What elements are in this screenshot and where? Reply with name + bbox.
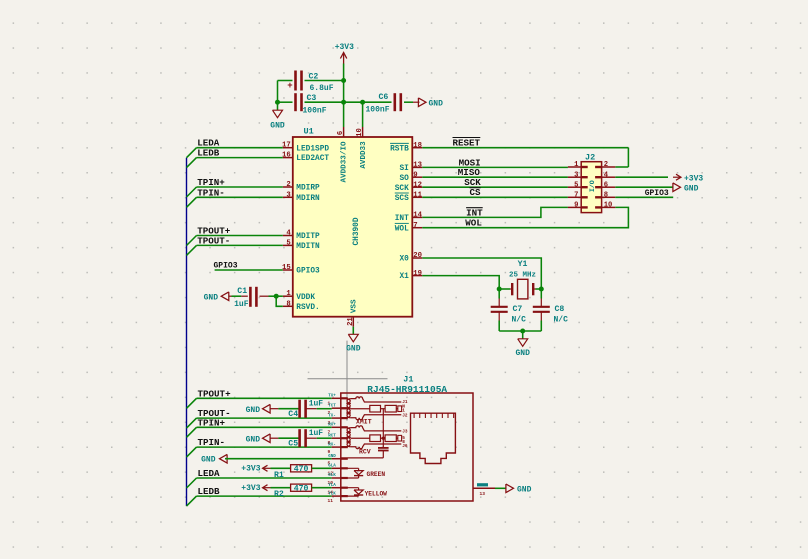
- label TPOUT+ bottom: [198, 388, 232, 399]
- wire TPIN-: [197, 196, 283, 198]
- svg-text:11: 11: [413, 192, 422, 200]
- svg-text:C4: C4: [288, 410, 298, 419]
- U1 pin 11 SCS: [395, 192, 423, 203]
- capacitor C5 1uF: [270, 429, 323, 449]
- capacitor C1 1uF: [229, 287, 269, 309]
- svg-text:YLA: YLA: [328, 484, 336, 488]
- wire MOSI net: [422, 166, 568, 168]
- J1 pin 13 shield GND: [473, 483, 495, 497]
- label TPIN-: [197, 187, 225, 198]
- svg-text:MDITN: MDITN: [296, 243, 320, 251]
- capacitor C7 N/C: [491, 289, 526, 331]
- svg-text:WOL: WOL: [465, 218, 482, 229]
- capacitor in J1 to shield: [378, 448, 389, 458]
- connector J2 body: [581, 153, 601, 213]
- junction: [274, 294, 279, 299]
- label TPOUT+: [197, 226, 231, 237]
- svg-text:10: 10: [356, 128, 364, 137]
- svg-text:GND: GND: [429, 99, 444, 108]
- svg-text:RX+: RX+: [328, 424, 336, 428]
- wire WOL net: [422, 207, 628, 227]
- svg-text:21: 21: [347, 317, 355, 326]
- wire to U1 pin 10: [362, 102, 364, 127]
- wire C2 row: [278, 81, 344, 103]
- svg-text:RJ45-HR911105A: RJ45-HR911105A: [367, 384, 447, 395]
- svg-text:15: 15: [282, 264, 291, 272]
- U1 pin 19 X1: [399, 270, 422, 281]
- wire GND to J1: [225, 458, 332, 460]
- svg-text:GND: GND: [515, 349, 530, 358]
- ground below crystal caps: [515, 331, 530, 358]
- ground left of C1: [204, 292, 229, 303]
- svg-text:5: 5: [574, 181, 578, 189]
- ground right of C6: [404, 98, 443, 108]
- capacitor C8 N/C: [533, 289, 568, 331]
- svg-text:CS: CS: [470, 187, 482, 198]
- U1 pin 7 WOL: [395, 222, 423, 233]
- wire LEDB bottom: [197, 495, 332, 497]
- svg-text:R2: R2: [274, 490, 284, 499]
- label TPIN+: [197, 177, 225, 188]
- wire RESET net: [422, 148, 628, 167]
- wire center tap vertical in J1: [382, 409, 384, 448]
- svg-text:SI: SI: [399, 165, 409, 173]
- U1 pin 12 SCK: [395, 181, 423, 192]
- ground label bottom: [201, 454, 227, 464]
- label LEDB: [197, 148, 220, 159]
- RJ45 jack icon: [411, 413, 456, 463]
- svg-text:LEDB: LEDB: [198, 486, 221, 497]
- LED YELLOW in J1: [341, 488, 387, 498]
- svg-text:1uF: 1uF: [309, 399, 324, 408]
- J2 pin 1: [568, 161, 588, 169]
- wire J1 shield rail: [341, 457, 384, 459]
- svg-text:9: 9: [574, 202, 578, 210]
- svg-text:C5: C5: [288, 440, 298, 449]
- svg-text:+3V3: +3V3: [684, 174, 703, 183]
- resistor R2 470: [271, 484, 312, 499]
- junction: [341, 100, 346, 105]
- U1 pin 1 VDDK: [283, 290, 316, 302]
- svg-text:J2: J2: [585, 153, 595, 163]
- capacitor C4 1uF: [270, 399, 323, 419]
- power +3V3 right: [673, 174, 703, 183]
- ground right of J1: [506, 484, 532, 495]
- wire INT net: [422, 207, 568, 217]
- svg-text:470: 470: [294, 465, 309, 474]
- junction: [497, 287, 502, 292]
- bus entry LEDB bottom: [187, 496, 197, 506]
- label SCK: [464, 177, 481, 188]
- svg-text:9: 9: [413, 171, 417, 179]
- U1 pin 2 MDIRP: [283, 181, 320, 193]
- ground below U1 VSS: [346, 327, 361, 354]
- svg-text:AVDD33: AVDD33: [360, 141, 368, 169]
- svg-text:8: 8: [286, 300, 290, 308]
- svg-text:18: 18: [413, 142, 422, 150]
- power +3V3 for R1: [241, 465, 270, 474]
- J1 pin 1 TX+: [328, 395, 348, 407]
- svg-text:SO: SO: [399, 175, 409, 183]
- svg-text:GND: GND: [684, 184, 699, 193]
- wire TPIN+ bottom: [197, 426, 332, 428]
- svg-text:100nF: 100nF: [303, 106, 327, 115]
- bus entry TPOUT+ bottom: [187, 398, 197, 408]
- svg-text:C6: C6: [379, 93, 389, 102]
- svg-text:C7: C7: [513, 305, 523, 314]
- svg-text:RESET: RESET: [453, 137, 481, 148]
- transformer XMIT in J1: [341, 397, 408, 426]
- label LEDA bottom: [198, 468, 221, 479]
- svg-text:1uF: 1uF: [309, 429, 324, 438]
- wire J1 to GND: [495, 487, 507, 489]
- wire TPIN+: [197, 186, 283, 188]
- U1 pin 4 MDITP: [283, 230, 320, 242]
- LED GREEN in J1: [341, 468, 386, 478]
- bus entry TPIN+: [187, 187, 197, 197]
- svg-text:+: +: [287, 81, 292, 91]
- junction in J1: [382, 437, 385, 440]
- svg-text:3: 3: [574, 171, 578, 179]
- label TPOUT-: [197, 235, 230, 246]
- U1 pin 16 LED2ACT: [282, 152, 329, 164]
- capacitor C3 100nF: [296, 93, 327, 115]
- U1 pin 9 SO: [399, 171, 422, 182]
- svg-text:I/O: I/O: [589, 180, 596, 192]
- wire SCK net: [422, 186, 568, 188]
- svg-text:3: 3: [286, 191, 291, 199]
- label LEDB bottom: [198, 486, 221, 497]
- svg-text:LEDB: LEDB: [197, 148, 220, 159]
- wire J2 pin4 to +3V3: [615, 176, 668, 178]
- svg-text:MDIRP: MDIRP: [296, 185, 320, 193]
- svg-text:GPIO3: GPIO3: [645, 189, 669, 198]
- label TPOUT- bottom: [198, 408, 231, 419]
- svg-text:SCK: SCK: [395, 185, 409, 193]
- svg-text:11: 11: [328, 498, 334, 504]
- J1 pin 11 YLK: [328, 492, 348, 504]
- svg-text:C3: C3: [307, 94, 317, 103]
- bus entry TPIN-: [187, 197, 197, 207]
- svg-text:RCT: RCT: [328, 434, 336, 438]
- svg-text:7: 7: [413, 222, 417, 230]
- junction: [539, 287, 544, 292]
- svg-text:GPIO3: GPIO3: [296, 268, 320, 276]
- svg-text:Y1: Y1: [518, 260, 528, 269]
- svg-text:RSTB: RSTB: [390, 145, 409, 153]
- U1 pin 13 SI: [399, 162, 422, 173]
- J2 pin 5: [568, 181, 588, 189]
- wire TPIN- bottom: [197, 446, 332, 448]
- svg-text:N/C: N/C: [512, 315, 527, 324]
- U1 pin 14 INT: [395, 212, 423, 223]
- svg-text:GND: GND: [270, 122, 285, 131]
- svg-text:1: 1: [286, 290, 291, 298]
- J1 pin 8 RCT: [328, 434, 348, 446]
- bus entry TPOUT- bottom: [187, 418, 197, 428]
- wire X0 net: [422, 258, 541, 289]
- J2 pin 7: [568, 191, 588, 199]
- svg-text:GREEN: GREEN: [367, 471, 386, 478]
- U1 pin 15 GPIO3: [282, 264, 320, 276]
- bus entry LEDA bottom: [187, 478, 197, 488]
- svg-text:R1: R1: [274, 471, 284, 480]
- svg-text:1: 1: [574, 161, 579, 169]
- svg-text:470: 470: [294, 484, 309, 493]
- svg-text:2: 2: [604, 161, 608, 169]
- U1 pin 18 RSTB: [390, 142, 422, 153]
- svg-text:TPIN-: TPIN-: [197, 187, 225, 198]
- svg-text:4: 4: [604, 171, 609, 179]
- wire C4 to J1: [317, 408, 332, 410]
- wire R1 to J1: [312, 467, 332, 469]
- svg-text:VSS: VSS: [351, 299, 359, 313]
- J1 pin 14 YLA: [328, 484, 348, 496]
- junction: [275, 100, 280, 105]
- U1 pin 17 LED1SPD: [282, 142, 329, 154]
- transformer RCV in J1: [341, 426, 408, 456]
- label RESET: [453, 137, 481, 148]
- ground right of J2: [673, 183, 699, 193]
- svg-text:INT: INT: [395, 215, 409, 223]
- svg-text:LEDA: LEDA: [198, 468, 221, 479]
- wire crystal caps bottom: [499, 330, 541, 332]
- svg-text:RSVD.: RSVD.: [296, 304, 319, 312]
- bus entry TPIN+ bottom: [187, 427, 197, 437]
- svg-text:GLK: GLK: [328, 474, 336, 478]
- svg-text:8: 8: [604, 191, 608, 199]
- capacitor C6 100nF: [363, 93, 401, 115]
- J2 pin 6: [595, 181, 615, 189]
- svg-text:16: 16: [282, 152, 291, 160]
- label WOL: [465, 218, 482, 229]
- label CS: [470, 187, 482, 198]
- svg-text:6: 6: [604, 181, 608, 189]
- junction: [360, 100, 365, 105]
- svg-text:LED2ACT: LED2ACT: [296, 155, 329, 163]
- svg-text:YELLOW: YELLOW: [365, 490, 388, 497]
- svg-text:U1: U1: [304, 127, 314, 137]
- svg-text:GND: GND: [204, 293, 219, 302]
- wire +3V3 vertical to U1 pin 6: [343, 64, 345, 128]
- svg-text:GND: GND: [246, 435, 261, 444]
- svg-text:2: 2: [286, 181, 290, 189]
- IC U1 CH390D body: [293, 127, 413, 317]
- wire R2 to J1: [312, 487, 332, 489]
- ground left of C5: [246, 434, 271, 445]
- svg-text:+3V3: +3V3: [241, 484, 260, 493]
- svg-text:C8: C8: [555, 305, 565, 314]
- svg-text:GPIO3: GPIO3: [214, 262, 238, 271]
- wire MISO net: [422, 176, 568, 178]
- svg-text:19: 19: [413, 270, 422, 278]
- svg-text:RCV: RCV: [359, 448, 371, 455]
- svg-text:12: 12: [413, 181, 422, 189]
- J1 pin 12 GLA: [328, 465, 348, 477]
- svg-text:GND: GND: [246, 406, 261, 415]
- svg-text:4: 4: [286, 230, 291, 238]
- label MISO: [458, 167, 481, 178]
- J2 pin 2: [595, 161, 615, 169]
- wire TPOUT+: [197, 235, 283, 237]
- svg-text:13: 13: [413, 162, 422, 170]
- J2 pin 9: [568, 202, 588, 210]
- J1 pin 3 TX-: [328, 414, 348, 426]
- svg-text:20: 20: [413, 252, 422, 260]
- wire TPOUT+ bottom: [197, 397, 332, 399]
- bus entry TPOUT+: [187, 236, 197, 246]
- cursor crosshair: [308, 341, 388, 421]
- connector J1 RJ45-HR911105A body: [341, 375, 473, 501]
- svg-text:TPOUT+: TPOUT+: [198, 388, 232, 399]
- svg-text:GLA: GLA: [328, 465, 336, 469]
- svg-text:LED1SPD: LED1SPD: [296, 145, 329, 153]
- bus entry LEDA: [187, 148, 197, 158]
- label MOSI: [459, 157, 481, 168]
- U1 pin 21 VSS: [347, 299, 359, 327]
- svg-text:C2: C2: [309, 73, 319, 82]
- svg-text:SCS: SCS: [395, 195, 409, 203]
- wire to RSVD pin 8: [276, 296, 283, 306]
- label GPIO3: [214, 262, 238, 271]
- wire J2 pin6 to GND: [615, 186, 673, 188]
- label TPIN+ bottom: [198, 417, 226, 428]
- crystal Y1 25 MHz: [499, 260, 541, 299]
- svg-text:MDIRN: MDIRN: [296, 195, 320, 203]
- svg-text:6.8uF: 6.8uF: [310, 84, 334, 93]
- wire C5 to J1: [317, 437, 332, 439]
- svg-text:1uF: 1uF: [234, 300, 249, 309]
- label LEDA: [197, 138, 220, 149]
- svg-text:N/C: N/C: [554, 315, 569, 324]
- U1 pin 5 MDITN: [283, 239, 320, 251]
- svg-text:25 MHz: 25 MHz: [509, 271, 536, 279]
- wire TPOUT- bottom: [197, 417, 332, 419]
- svg-text:J6: J6: [402, 444, 408, 449]
- svg-text:J2: J2: [402, 413, 408, 418]
- svg-text:RX-: RX-: [328, 443, 336, 447]
- J2 pin 3: [568, 171, 588, 179]
- J1 pin 5 GND: [328, 455, 348, 467]
- svg-text:17: 17: [282, 142, 291, 150]
- bus entry LEDB: [187, 158, 197, 168]
- svg-text:CH390D: CH390D: [353, 217, 361, 245]
- ground left of C4: [246, 404, 271, 415]
- wire LEDB: [197, 157, 283, 159]
- svg-text:TX-: TX-: [328, 414, 336, 418]
- svg-text:TPIN-: TPIN-: [198, 437, 226, 448]
- capacitor C2 6.8uF: [287, 71, 333, 94]
- wire X1 net: [422, 276, 499, 289]
- J1 pin 10 GLK: [328, 474, 348, 486]
- svg-text:TPIN+: TPIN+: [198, 417, 226, 428]
- label TPIN- bottom: [198, 437, 226, 448]
- resistor R1 470: [271, 465, 312, 480]
- svg-text:X0: X0: [399, 256, 409, 264]
- svg-text:YLK: YLK: [328, 492, 336, 496]
- wire CS net: [422, 196, 568, 198]
- wire LEDA: [197, 147, 283, 149]
- wire C3 row: [278, 101, 363, 103]
- label GPIO3 right: [645, 189, 669, 198]
- svg-text:GND: GND: [346, 345, 361, 354]
- junction: [341, 78, 346, 83]
- J1 pin 9 RX-: [328, 443, 348, 455]
- svg-text:6: 6: [337, 131, 345, 135]
- svg-text:C1: C1: [237, 287, 247, 296]
- svg-text:AVDD33/IO: AVDD33/IO: [340, 141, 348, 182]
- svg-text:13: 13: [480, 491, 486, 497]
- U1 pin 6 AVDD33/IO: [337, 127, 348, 183]
- power +3V3 for R2: [241, 484, 270, 493]
- label INT: [466, 207, 483, 218]
- svg-text:TCT: TCT: [328, 404, 336, 408]
- bus vertical: [186, 158, 188, 506]
- svg-text:7: 7: [574, 191, 578, 199]
- svg-text:VDDK: VDDK: [296, 294, 315, 302]
- svg-text:14: 14: [413, 212, 422, 220]
- svg-text:J3: J3: [402, 430, 408, 435]
- svg-text:GND: GND: [328, 455, 336, 459]
- J2 pin 8: [595, 191, 615, 199]
- U1 pin 20 X0: [399, 252, 422, 263]
- svg-text:10: 10: [604, 202, 613, 210]
- svg-text:X1: X1: [399, 273, 409, 281]
- ground below C3: [270, 102, 285, 130]
- svg-text:GND: GND: [201, 456, 216, 465]
- wire TPOUT-: [197, 244, 283, 246]
- svg-text:GND: GND: [517, 486, 532, 495]
- bus entry TPOUT-: [187, 245, 197, 255]
- wire J2 pin8 GPIO3: [615, 196, 673, 198]
- svg-text:TPOUT-: TPOUT-: [197, 235, 230, 246]
- J1 pin 2 TCT: [328, 404, 348, 416]
- J2 pin 4: [595, 171, 615, 179]
- svg-text:100nF: 100nF: [366, 106, 390, 115]
- wire GPIO3: [215, 269, 283, 271]
- svg-text:+3V3: +3V3: [335, 43, 354, 52]
- J1 pin 7 RX+: [328, 424, 348, 436]
- svg-text:WOL: WOL: [395, 225, 409, 233]
- svg-text:MDITP: MDITP: [296, 233, 320, 241]
- U1 pin 8 RSVD.: [283, 300, 320, 312]
- wire C1 to VDDK: [269, 295, 283, 297]
- bus entry TPIN- bottom: [187, 447, 197, 457]
- U1 pin 3 MDIRN: [283, 191, 320, 203]
- U1 pin 10 AVDD33: [356, 127, 368, 169]
- svg-text:+3V3: +3V3: [241, 465, 260, 474]
- J2 pin 10: [595, 202, 615, 210]
- wire LEDA bottom: [197, 477, 332, 479]
- svg-text:XMIT: XMIT: [356, 418, 372, 425]
- power +3V3 top: [335, 43, 354, 64]
- junction: [520, 329, 525, 334]
- svg-text:5: 5: [286, 239, 290, 247]
- svg-text:TX+: TX+: [328, 395, 336, 399]
